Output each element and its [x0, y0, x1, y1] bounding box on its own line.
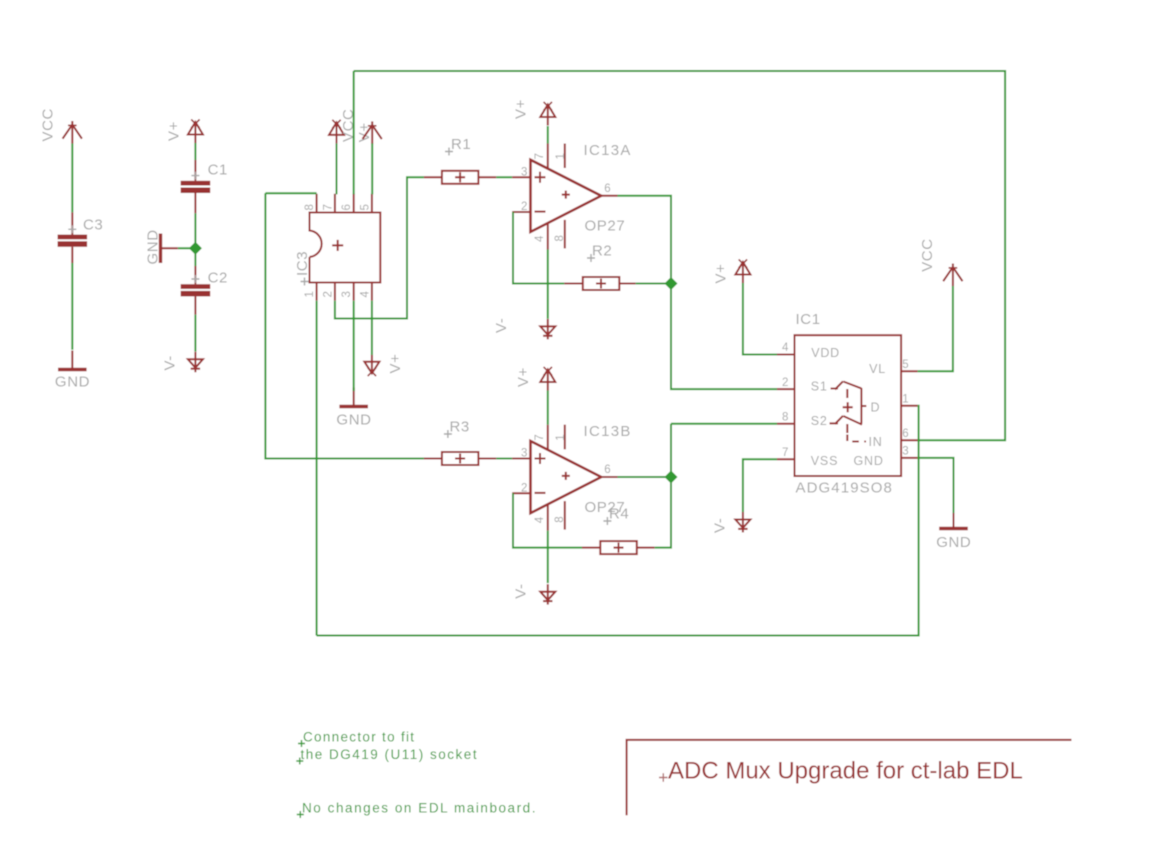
wire node to C2: [194, 248, 196, 266]
wire VCC to C3: [71, 144, 73, 213]
svg-text:3: 3: [521, 166, 528, 178]
svg-text:R4: R4: [609, 506, 629, 523]
svg-text:6: 6: [604, 464, 611, 476]
svg-text:IC13A: IC13A: [584, 142, 632, 159]
supply V- (C2 column): [162, 352, 203, 372]
IC3 pin 4: [359, 283, 372, 301]
wire IC13B output to node B: [618, 476, 672, 478]
svg-text:GND: GND: [936, 534, 971, 551]
wire IC1 pin3 to GND: [918, 458, 954, 513]
svg-text:3: 3: [341, 291, 353, 297]
IC3 pin 7: [322, 194, 335, 213]
junction node A: [665, 277, 678, 290]
IC13A pin 8: [554, 220, 566, 249]
IC13B pin 1: [555, 425, 567, 450]
svg-text:R1: R1: [451, 136, 471, 153]
IC1 pin 4 (VDD): [777, 342, 795, 354]
IC3 pin 3: [341, 283, 354, 301]
wire IC13A pin4 to V-: [547, 250, 549, 319]
supply VCC (IC3 pin 5): [340, 109, 382, 144]
svg-text:4: 4: [359, 291, 371, 298]
supply VCC (left column): [39, 108, 82, 143]
svg-text:OP27: OP27: [585, 217, 626, 234]
IC1 pin 3 (GND): [901, 446, 918, 458]
wire IC1 pin7 to V-: [743, 459, 777, 512]
supply V+ (IC13A): [513, 99, 556, 125]
wire IC3 pin3 to GND: [353, 301, 355, 391]
svg-text:8: 8: [304, 204, 316, 210]
resistor R4: [582, 506, 655, 554]
wire V+ to IC1 pin4: [743, 283, 777, 355]
wire IC3 pin8 link: [265, 192, 316, 194]
note text line 1: [298, 730, 415, 748]
wire IC13B pin2 feedback to R4: [513, 493, 582, 547]
svg-text:V-: V-: [512, 583, 529, 598]
wire V+ to IC13B pin7: [547, 391, 549, 425]
wire IC3 pin4 to V+: [371, 301, 373, 355]
wire R2 to node A: [636, 283, 671, 285]
svg-text:V+: V+: [513, 99, 530, 119]
svg-text:ADG419SO8: ADG419SO8: [796, 480, 893, 497]
wire IC3 pin2 to R1: [335, 177, 424, 318]
supply V- (IC13A): [493, 318, 556, 340]
IC13B pin 4: [534, 504, 548, 530]
op-amp IC13A (OP27): [531, 142, 632, 235]
capacitor C3: [58, 212, 104, 263]
note text line 2: [296, 747, 478, 765]
svg-text:GND: GND: [55, 374, 90, 391]
svg-text:7: 7: [322, 204, 334, 210]
svg-text:6: 6: [604, 183, 611, 195]
svg-text:S2: S2: [811, 414, 828, 428]
supply V- (IC1 VSS): [711, 512, 750, 533]
svg-text:1: 1: [304, 291, 316, 297]
wire V+ to IC13A pin7: [547, 126, 549, 144]
svg-text:GND: GND: [145, 229, 162, 264]
ground GND (rotated, C1/C2 node): [145, 229, 178, 264]
svg-text:V-: V-: [711, 518, 728, 533]
svg-text:5: 5: [359, 204, 371, 210]
junction node B: [665, 471, 678, 484]
svg-text:GND: GND: [854, 454, 884, 468]
supply V+ (IC1 VDD): [713, 259, 751, 283]
wire R1 to IC13A pin3: [496, 176, 512, 178]
svg-text:7: 7: [534, 434, 546, 441]
wire C3 to GND: [71, 263, 73, 350]
svg-text:VCC: VCC: [919, 238, 936, 271]
wire IC13B pin4 to V-: [547, 531, 549, 583]
wire V+ to C1: [194, 143, 196, 160]
svg-text:IC3: IC3: [294, 251, 311, 276]
connector IC3 (DIL08 socket): [294, 213, 380, 286]
wire IC1 pin5 to VCC: [918, 286, 953, 371]
IC13B pin 3: [512, 448, 530, 460]
svg-text:V+: V+: [713, 264, 730, 284]
svg-text:6: 6: [341, 204, 353, 210]
supply VCC (IC1 VL): [919, 238, 963, 286]
svg-text:1: 1: [902, 394, 909, 406]
IC3 pin 1: [304, 283, 317, 301]
op-amp IC13B (OP27): [531, 423, 632, 516]
IC13A pin 1: [555, 144, 567, 169]
svg-text:V-: V-: [162, 355, 179, 370]
wire IC3 pin7 to V+: [336, 143, 338, 194]
svg-text:8: 8: [782, 412, 789, 424]
junction (C1/C2/GND node): [189, 242, 202, 255]
svg-text:1: 1: [555, 153, 567, 160]
svg-text:VL: VL: [869, 362, 886, 376]
title text: [659, 758, 1023, 785]
wire C1 to node: [194, 213, 196, 248]
wire R4 to node B: [655, 424, 671, 548]
svg-text:Connector to fit: Connector to fit: [303, 730, 415, 745]
IC13A pin 6: [601, 183, 617, 196]
wire left loop down to R3: [265, 193, 424, 458]
svg-text:1: 1: [555, 434, 567, 441]
supply V- (IC13B): [512, 583, 555, 604]
wire C2 to V-: [194, 315, 196, 352]
svg-text:2: 2: [322, 291, 334, 297]
ground GND (IC3 pin 3): [336, 388, 371, 429]
svg-text:3: 3: [902, 446, 909, 458]
IC13B pin 6: [601, 464, 617, 477]
IC1 pin 8 (S2): [777, 412, 795, 424]
supply V+ (IC3 pin 4, pointing down): [364, 354, 404, 377]
IC13A pin 3: [512, 166, 530, 178]
svg-text:IN: IN: [868, 435, 882, 449]
svg-text:5: 5: [902, 359, 909, 371]
wire IC13A output to S1: [618, 196, 778, 389]
wire node B to S2: [671, 423, 777, 425]
IC13B pin 7: [534, 425, 548, 450]
svg-text:D: D: [870, 401, 880, 415]
IC1 pin 1 (D): [901, 394, 918, 406]
svg-text:S1: S1: [811, 379, 828, 393]
wire IC3 pin6 to top net: [353, 71, 355, 194]
wire IC3 pin1 to bottom net: [316, 301, 318, 636]
svg-text:No changes on EDL mainboard.: No changes on EDL mainboard.: [302, 801, 537, 816]
capacitor C1: [181, 160, 228, 213]
svg-text:C3: C3: [83, 217, 103, 234]
svg-text:VSS: VSS: [811, 454, 838, 468]
IC3 pin 6: [341, 194, 354, 213]
svg-text:2: 2: [782, 377, 789, 389]
svg-text:C1: C1: [208, 162, 228, 179]
svg-text:7: 7: [534, 153, 546, 160]
IC13A pin 4: [534, 223, 548, 249]
svg-text:IC1: IC1: [796, 311, 821, 328]
svg-text:8: 8: [554, 516, 566, 523]
IC13A pin 2: [512, 201, 530, 213]
svg-text:V+: V+: [515, 367, 532, 387]
IC3 pin 8: [304, 194, 317, 213]
IC13B pin 2: [512, 483, 530, 495]
IC3 pin 2: [322, 283, 335, 301]
svg-text:2: 2: [521, 483, 528, 495]
svg-text:V+: V+: [166, 121, 183, 141]
IC1 pin 2 (S1): [777, 377, 795, 389]
wire IC3 pin5 to VCC: [371, 143, 373, 194]
ground GND (IC1 pin3): [936, 510, 971, 552]
svg-text:VCC: VCC: [39, 108, 56, 141]
svg-text:R3: R3: [450, 419, 470, 436]
resistor R1: [424, 136, 496, 184]
svg-text:IC13B: IC13B: [584, 423, 632, 440]
IC13A pin 7: [534, 144, 548, 169]
resistor R3: [424, 419, 496, 466]
ground GND (left column): [55, 351, 90, 391]
supply V+ (IC3 pin 7): [329, 120, 373, 144]
supply V+ (C1 column): [166, 119, 203, 143]
wire top net (IN control loop): [354, 71, 1005, 440]
svg-text:8: 8: [554, 235, 566, 242]
svg-text:6: 6: [902, 428, 909, 440]
svg-text:ADC Mux Upgrade for ct-lab EDL: ADC Mux Upgrade for ct-lab EDL: [668, 758, 1023, 785]
svg-text:2: 2: [521, 201, 528, 213]
IC1 pin 7 (VSS): [777, 447, 795, 459]
IC3 pin 5: [359, 194, 372, 213]
svg-text:C2: C2: [208, 270, 228, 287]
IC13B pin 8: [554, 501, 566, 529]
wire R3 to IC13B pin3: [496, 458, 512, 460]
svg-text:V+: V+: [387, 354, 404, 374]
IC1 pin 5 (VL): [901, 359, 918, 371]
svg-text:4: 4: [534, 235, 546, 242]
svg-text:R2: R2: [592, 242, 612, 259]
svg-text:7: 7: [782, 447, 789, 459]
title frame: [627, 740, 1072, 815]
svg-text:V-: V-: [493, 318, 510, 333]
IC1 pin 6 (IN): [901, 428, 918, 440]
IC1 switch symbol: [830, 381, 867, 441]
wire bottom net (D signal): [317, 406, 919, 636]
wire IC13A pin2 feedback to R2: [513, 212, 564, 284]
capacitor C2: [181, 266, 228, 315]
svg-text:4: 4: [534, 516, 546, 523]
analog switch IC1 (ADG419SO8): [795, 311, 902, 497]
svg-text:3: 3: [521, 448, 528, 460]
supply V+ (IC13B): [515, 367, 555, 391]
wire node to GND: [178, 247, 196, 249]
note text line 3: [297, 801, 537, 819]
svg-text:VDD: VDD: [811, 346, 840, 360]
resistor R2: [564, 242, 635, 290]
svg-text:4: 4: [782, 342, 789, 354]
svg-text:GND: GND: [336, 412, 371, 429]
svg-text:the DG419 (U11) socket: the DG419 (U11) socket: [301, 747, 479, 762]
